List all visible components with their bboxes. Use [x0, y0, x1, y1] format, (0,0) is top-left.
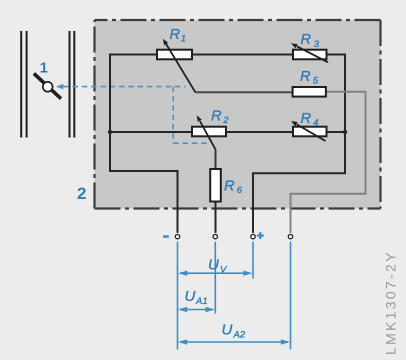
value label R4	[301, 111, 319, 129]
svg-text:LMK1307-2Y: LMK1307-2Y	[383, 250, 399, 355]
sensor element 1: contact circle	[43, 82, 53, 92]
voltage label UA1	[185, 288, 208, 307]
svg-text:R: R	[170, 27, 181, 43]
terminal 2	[213, 234, 217, 238]
wire: R6 down to terminal 2	[215, 202, 217, 233]
terminal 3	[251, 234, 255, 238]
dashed coupling line (lower horizontal segment)	[173, 142, 207, 144]
guide line from terminal 3	[252, 242, 254, 279]
terminal 1	[175, 234, 179, 238]
svg-text:R: R	[301, 111, 312, 127]
polarity label plus	[257, 232, 264, 239]
measuring-bridge housing box 2	[95, 20, 381, 209]
dimension arrow UA2	[178, 339, 290, 344]
guide line from terminal 2	[214, 242, 216, 314]
sensor element 1: right guide rail (double line)	[70, 31, 75, 138]
resistor R3 (variable)	[291, 43, 328, 62]
value label R2	[211, 109, 229, 127]
svg-text:4: 4	[313, 118, 318, 129]
polarity label minus	[163, 235, 169, 238]
guide line from terminal 1	[177, 242, 179, 350]
value label R5	[300, 69, 319, 87]
wire: bridge row 3 (R2/R4 row)	[110, 131, 345, 133]
svg-text:1: 1	[181, 34, 186, 45]
sensor element 1: slider bar	[34, 74, 61, 99]
wire: left bridge node down to terminal 1	[110, 132, 178, 233]
dashed coupling line (vertical segment)	[172, 87, 174, 144]
wire: left vertical + top row + right vertical (supply loop)	[110, 55, 345, 133]
resistor R2 (variable)	[192, 115, 226, 149]
svg-text:6: 6	[237, 185, 243, 196]
svg-text:R: R	[211, 109, 222, 125]
svg-text:U: U	[185, 288, 196, 305]
guide line from terminal 4	[290, 242, 292, 350]
voltage label UA2	[222, 322, 246, 341]
svg-text:A1: A1	[195, 296, 208, 307]
svg-text:2: 2	[222, 115, 229, 126]
svg-text:A2: A2	[233, 329, 246, 340]
dimension arrow UA1	[178, 307, 214, 312]
voltage label UV	[208, 257, 228, 276]
svg-text:R: R	[301, 32, 312, 48]
wire: right bridge node down to terminal 3	[253, 132, 345, 233]
junction node: right bridge node	[343, 130, 347, 134]
value label R1	[170, 27, 187, 45]
svg-text:2: 2	[77, 184, 86, 203]
resistor R6	[210, 169, 221, 202]
wire: R1 tap to R5 (row 2, dark segment)	[195, 91, 292, 93]
dimension arrow UV	[178, 271, 252, 276]
dashed coupling line (upper horizontal with arrow to element 1)	[56, 84, 186, 90]
resistor R1 (variable)	[157, 39, 195, 93]
wire: R2 tap down to R6	[215, 149, 217, 169]
wire: R5 to terminal 4 (gray path)	[291, 92, 366, 233]
svg-text:U: U	[208, 257, 219, 274]
sensor element 1: left guide rail (double line)	[21, 31, 26, 138]
value label R6	[224, 178, 243, 196]
svg-text:1: 1	[40, 59, 48, 76]
resistor R5	[293, 87, 326, 97]
resistor R4 (variable)	[291, 121, 327, 141]
svg-text:3: 3	[314, 39, 320, 50]
svg-text:5: 5	[313, 76, 319, 87]
terminal 4	[288, 234, 292, 238]
junction node: left bridge node	[108, 130, 112, 134]
svg-text:U: U	[222, 322, 233, 339]
svg-text:R: R	[224, 178, 235, 194]
value label R3	[301, 32, 320, 50]
svg-text:R: R	[300, 69, 311, 85]
